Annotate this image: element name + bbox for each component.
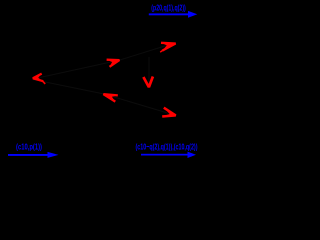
svg-text:(p20,q(1),q(2)): (p20,q(1),q(2)) — [151, 3, 186, 12]
arrow bottom-right (blue, pointing right) — [141, 152, 196, 158]
arrow top-right (blue, pointing right) — [149, 11, 198, 18]
arrowhead c (upper-right, pointing ENE) — [160, 43, 175, 52]
wire lower edge L to BR — [33, 80, 176, 116]
wire vertical middle edge — [148, 57, 150, 87]
svg-text:(c10,p(1)): (c10,p(1)) — [16, 142, 42, 152]
arrowhead f (bottom-right, pointing ESE) — [162, 108, 176, 117]
arrowhead a (left, pointing WSW) — [33, 74, 45, 84]
arrowhead d (lower-middle, pointing WSW) — [103, 94, 117, 102]
arrowhead e (middle-right, pointing S) — [143, 77, 153, 88]
svg-text:(c10−q(2),q(1)),(c10,q(2)): (c10−q(2),q(1)),(c10,q(2)) — [136, 141, 198, 151]
wire upper edge L to TR — [33, 43, 176, 80]
arrowhead b (upper-middle, pointing ENE) — [107, 60, 120, 67]
arrow bottom-left (blue, pointing right) — [8, 152, 59, 158]
